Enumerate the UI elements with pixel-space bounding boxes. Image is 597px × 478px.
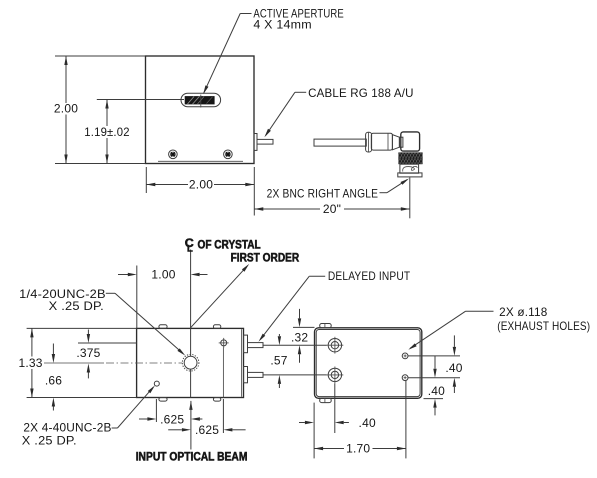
active aperture stadium bezel: [181, 93, 221, 107]
horizontal centerline: [44, 362, 182, 364]
dimension .32: [291, 309, 308, 363]
top view tab top-right: [213, 325, 220, 329]
dimension .32 extension line: [293, 326, 315, 328]
crimp ferrule: [371, 133, 392, 150]
svg-text:X .25 DP.: X .25 DP.: [22, 434, 77, 448]
leader to threaded hole: [106, 293, 186, 355]
dimension .375 extension line: [78, 342, 137, 344]
svg-text:FIRST ORDER: FIRST ORDER: [231, 251, 300, 265]
input beam leader: [189, 401, 192, 450]
dimension 1.00 extension line: [136, 266, 138, 329]
label centerline of crystal: [185, 236, 261, 255]
dimension .375: [76, 330, 100, 379]
connector pin 2 flange: [244, 367, 248, 383]
svg-text:X .25 DP.: X .25 DP.: [49, 299, 104, 313]
first order exit hole: [219, 338, 229, 348]
hole 4-40: [154, 381, 159, 386]
label 2X BNC RIGHT ANGLE: [267, 186, 379, 200]
svg-text:2.00: 2.00: [54, 102, 78, 116]
side view tab bottom: [320, 398, 332, 402]
top view tab bottom-left: [159, 398, 167, 402]
screw boss 1: [327, 337, 344, 354]
front screw right: [224, 150, 233, 159]
dimension 2.00 width: [146, 178, 254, 192]
label DELAYED INPUT: [328, 269, 411, 283]
bnc plug body: [400, 164, 419, 173]
dimension .625 left: [139, 412, 202, 426]
front view connector pin: [257, 139, 273, 144]
label INPUT OPTICAL BEAM: [136, 450, 248, 464]
label 1/4-20UNC-2B: [19, 287, 106, 313]
side view tab top: [320, 324, 332, 328]
right angle body: [401, 132, 420, 151]
svg-text:1.00: 1.00: [151, 268, 175, 282]
connector pin 1: [248, 343, 264, 348]
svg-text:1.19±.02: 1.19±.02: [84, 125, 130, 139]
dimension 1.19 extension line: [97, 99, 184, 101]
connector pin 2: [248, 372, 264, 377]
label 2X 4-40UNC-2B: [22, 421, 112, 448]
svg-text:.625: .625: [195, 423, 219, 437]
svg-text:.625: .625: [160, 412, 184, 426]
front view base plate line: [158, 160, 243, 162]
cable strain relief flange: [366, 132, 372, 152]
label ACTIVE APERTURE: [253, 6, 344, 31]
leader to delayed input pin: [259, 276, 326, 342]
dimension .57: [270, 334, 287, 388]
exhaust hole 1 extension: [408, 355, 460, 357]
svg-text:DELAYED INPUT: DELAYED INPUT: [328, 269, 411, 283]
leader to cable: [264, 92, 306, 137]
aperture center tick: [200, 95, 202, 108]
dimension 1.33: [19, 328, 43, 397]
knurled nut: [394, 152, 427, 164]
dimension 2.00 height extension lines: [55, 56, 146, 164]
cable: [314, 139, 366, 146]
first order beam arrow: [191, 264, 250, 328]
pin 1 centerline: [263, 344, 327, 346]
label 2X exhaust holes: [497, 305, 590, 333]
svg-text:20": 20": [323, 202, 341, 216]
dimension .66: [45, 344, 62, 411]
exhaust hole 2 extension: [408, 377, 460, 379]
svg-text:.57: .57: [270, 353, 287, 367]
svg-text:INPUT OPTICAL BEAM: INPUT OPTICAL BEAM: [136, 450, 248, 464]
dimension 2.00 height: [54, 56, 78, 164]
svg-text:.40: .40: [445, 361, 462, 375]
connector pin 1 flange: [244, 335, 248, 353]
extension line 4-40 below: [155, 399, 157, 422]
label CABLE RG 188 A/U: [308, 86, 414, 100]
svg-text:4 X 14mm: 4 X 14mm: [253, 18, 311, 32]
front view connector flange: [254, 134, 257, 151]
dimension 1.70 extension lines: [314, 381, 406, 459]
svg-text:2X BNC RIGHT ANGLE: 2X BNC RIGHT ANGLE: [267, 186, 379, 200]
top view tab bottom-right: [213, 398, 220, 402]
svg-text:.40: .40: [359, 416, 376, 430]
side view outline: [315, 328, 422, 399]
top view housing outline: [137, 328, 244, 397]
svg-text:.32: .32: [291, 330, 308, 344]
exhaust hole 2: [402, 375, 408, 381]
dimension 1.00: [118, 268, 208, 282]
svg-text:2X ø.118: 2X ø.118: [499, 305, 548, 319]
svg-text:.40: .40: [428, 384, 445, 398]
dimension 1.19±.02: [84, 100, 130, 164]
svg-text:1.33: 1.33: [19, 356, 43, 370]
dimension 20 inch: [254, 178, 409, 219]
leader to 4-40 hole: [112, 385, 155, 428]
dimension 2.00 width extension lines: [146, 167, 254, 216]
screw boss 2: [327, 367, 344, 384]
dimension 1.70: [314, 442, 406, 456]
exhaust hole 1: [402, 353, 408, 359]
active aperture window: [185, 96, 215, 104]
vertical centerline of crystal: [190, 250, 192, 398]
leader to active aperture: [203, 14, 251, 95]
dimension .40 first: [445, 335, 462, 393]
screw column extension below: [334, 383, 336, 433]
svg-text:(EXHAUST HOLES): (EXHAUST HOLES): [497, 319, 590, 333]
dimension .40 third: [299, 416, 376, 430]
top view tab top-left: [159, 325, 167, 329]
side view inner outline: [316, 330, 420, 397]
dimension 1.33 extension lines: [27, 328, 137, 397]
dimension .40 second extension: [424, 398, 444, 400]
svg-text:CABLE RG 188 A/U: CABLE RG 188 A/U: [308, 86, 414, 100]
connector neck: [399, 137, 403, 147]
leader to exhaust hole: [408, 311, 493, 350]
svg-text:OF CRYSTAL: OF CRYSTAL: [198, 237, 261, 251]
dimension .625 right: [168, 423, 245, 437]
svg-text:.66: .66: [45, 374, 62, 388]
front screw left: [169, 150, 178, 159]
leader to bnc: [380, 179, 410, 193]
ferrule taper: [392, 135, 399, 150]
threaded hole 1/4-20: [182, 354, 199, 371]
top view inner right wall: [241, 329, 243, 397]
svg-text:2X 4-40UNC-2B: 2X 4-40UNC-2B: [23, 421, 111, 435]
label FIRST ORDER: [231, 251, 300, 265]
svg-text:.375: .375: [76, 346, 100, 360]
dimension .40 second: [428, 356, 445, 415]
pin 2 centerline: [263, 374, 327, 376]
front view housing outline: [146, 56, 255, 164]
extension line exit hole below: [222, 348, 224, 433]
svg-text:2.00: 2.00: [189, 178, 213, 192]
bnc flange: [398, 173, 422, 177]
svg-text:1.70: 1.70: [346, 442, 370, 456]
svg-text:L: L: [187, 244, 193, 255]
